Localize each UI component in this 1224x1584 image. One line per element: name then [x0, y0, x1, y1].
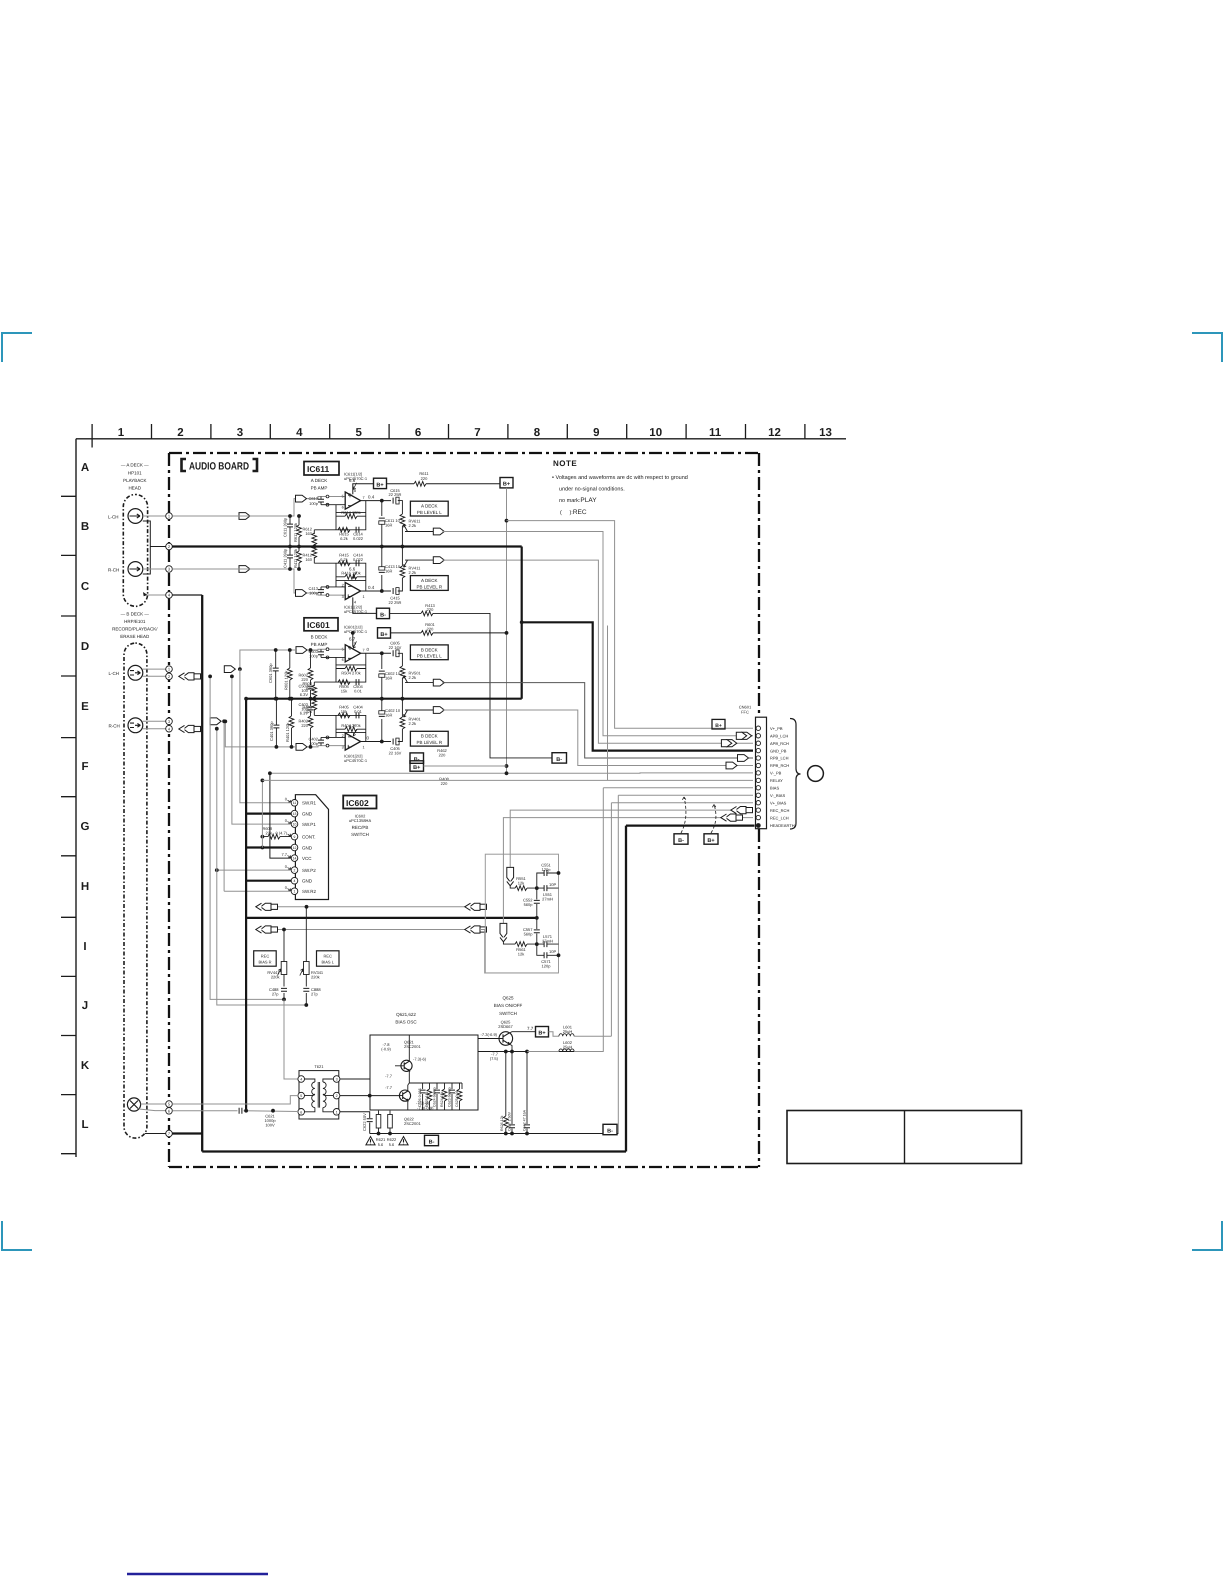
svg-text:C625 0.01: C625 0.01: [455, 1090, 459, 1107]
svg-text:E: E: [81, 701, 89, 713]
svg-text:0.4: 0.4: [368, 494, 375, 499]
svg-text:5: 5: [355, 427, 362, 439]
svg-text:1: 1: [294, 890, 296, 894]
border left: [168, 453, 170, 1167]
board pin 2: [166, 543, 173, 550]
wire into VCC: [270, 773, 291, 858]
svg-text:6: 6: [342, 658, 344, 662]
svg-text:1: 1: [363, 745, 365, 749]
op-amp U2b IC601 R: [345, 733, 360, 750]
chevron on A R-CH line: [239, 566, 250, 573]
head A ground arrow on shield: [143, 592, 148, 596]
svg-text:11: 11: [293, 801, 297, 805]
input chevron IC611 R: [296, 590, 307, 597]
border top: [169, 452, 759, 454]
board pin B4: [166, 725, 173, 732]
svg-text:0: 0: [285, 818, 288, 823]
svg-text:15k: 15k: [341, 688, 347, 693]
board pin B1: [166, 666, 173, 673]
column numbers: [118, 427, 832, 439]
svg-text:FFC: FFC: [741, 709, 749, 714]
pin net labels: [770, 726, 795, 828]
svg-text:1: 1: [363, 595, 365, 599]
svg-text:CONT.: CONT.: [302, 834, 316, 839]
B+ box V+ PB: [712, 719, 725, 729]
svg-text:7: 7: [363, 649, 365, 653]
capacitor C411 390p: [289, 547, 291, 570]
svg-text:2: 2: [177, 427, 183, 439]
B- box right: [603, 1124, 617, 1134]
svg-text:under no-signal conditions.: under no-signal conditions.: [559, 487, 625, 493]
svg-text:2.2k: 2.2k: [409, 570, 417, 575]
op-amp U1b IC611 R: [345, 582, 360, 599]
svg-text:R504 270k: R504 270k: [341, 670, 360, 675]
svg-text:0.01: 0.01: [354, 688, 363, 693]
wire into GND b (heavy): [246, 846, 291, 848]
chevron on B L-CH pb line: [224, 666, 235, 673]
svg-text:22 25R: 22 25R: [389, 600, 402, 605]
crop mark top-left: [1, 332, 32, 362]
board pin 1: [166, 513, 173, 520]
svg-text:D: D: [81, 641, 89, 653]
svg-text:G: G: [81, 821, 90, 833]
svg-text:2: 2: [342, 583, 344, 587]
inductor L601 25uH: [559, 1034, 574, 1037]
svg-text:560p: 560p: [524, 932, 534, 937]
svg-text:8: 8: [354, 489, 356, 493]
svg-text:R401 120k: R401 120k: [285, 723, 290, 742]
wire B R-CH loop to amp input: [225, 721, 345, 747]
head B R-CH head element: [128, 718, 143, 733]
svg-text:B+: B+: [715, 723, 722, 729]
svg-text:HEADEARTH: HEADEARTH: [770, 823, 795, 828]
svg-text:NOTE: NOTE: [553, 459, 577, 468]
svg-text:2SC2001: 2SC2001: [404, 1121, 421, 1126]
svg-text:uPC4570C-1: uPC4570C-1: [344, 476, 368, 481]
capacitor C603 100p: [320, 649, 322, 657]
feedback network box A-R: [314, 563, 366, 591]
B+ box (IC611): [374, 478, 387, 488]
T621 pins: [298, 1076, 305, 1083]
leader to V+ BIAS rail: [711, 805, 716, 834]
wire B L-CH rec vertical: [210, 676, 284, 999]
crop mark bottom-right: [1192, 1221, 1223, 1250]
svg-text:27p: 27p: [272, 991, 279, 996]
resistor R503 22k: [313, 682, 315, 699]
svg-text:10P: 10P: [549, 949, 556, 954]
svg-text:22k: 22k: [266, 831, 272, 836]
transformer T621 body: [299, 1071, 339, 1119]
capacitor C405 22 16V: [393, 739, 396, 745]
IC611 label box: [304, 462, 339, 476]
svg-text:1: 1: [118, 427, 125, 439]
IC602 pin GND b: [291, 844, 298, 851]
capacitor C551 120p loop: [537, 873, 559, 888]
svg-text:11: 11: [709, 427, 722, 439]
capacitor C571 120p loop: [537, 944, 559, 955]
svg-text:APB_RCH: APB_RCH: [770, 741, 789, 746]
svg-text:16R: 16R: [385, 523, 392, 528]
test point circles op-amp 2 inputs: [326, 586, 329, 597]
svg-text:R626 12k: R626 12k: [500, 1115, 504, 1131]
svg-text:25uH: 25uH: [563, 1044, 573, 1049]
svg-text:uPC4570C-1: uPC4570C-1: [344, 758, 368, 763]
fusible resistor R621 5.6: [378, 1111, 380, 1134]
capacitor C417 zobel (R): [381, 547, 383, 592]
svg-text:B-: B-: [607, 1128, 613, 1134]
arrow left end lower bus: [256, 926, 278, 933]
B- box (IC601 bottom): [410, 753, 424, 763]
svg-text:IC602: IC602: [346, 798, 369, 808]
input chevron IC601 R: [296, 744, 307, 751]
capacitor 10P lower: [537, 943, 559, 945]
svg-text:2.2k: 2.2k: [409, 675, 417, 680]
svg-text:0: 0: [285, 797, 288, 802]
svg-text:PB LEVEL R: PB LEVEL R: [416, 584, 442, 589]
svg-text:Q621,622: Q621,622: [396, 1012, 416, 1017]
capacitor C642 47 16A: [526, 1052, 528, 1134]
wire to R551: [510, 886, 537, 888]
svg-text:V+_PB: V+_PB: [770, 726, 783, 731]
svg-text:2: 2: [294, 869, 296, 873]
head A common bracket wire: [143, 521, 169, 574]
ground bus A deck (heavy): [172, 545, 521, 547]
rec arrow into B L-CH: [179, 673, 201, 680]
board pin 4: [166, 592, 173, 599]
capacitor C413 100p: [320, 587, 322, 595]
wire to level pot B-R: [398, 729, 403, 742]
head B erase element: [127, 1098, 140, 1111]
svg-text:10P: 10P: [549, 882, 556, 887]
svg-text:4: 4: [300, 1078, 302, 1082]
svg-text:B+: B+: [376, 482, 383, 488]
feedback network box A-L: [314, 501, 366, 530]
svg-text:2SC2001: 2SC2001: [404, 1044, 421, 1049]
svg-text:100p: 100p: [309, 654, 319, 659]
svg-text:220: 220: [301, 723, 308, 728]
test point circles op-amp 3 inputs: [326, 648, 329, 659]
B- reference box below connector: [674, 834, 688, 844]
svg-text:RECORD/PLAYBACK/: RECORD/PLAYBACK/: [112, 626, 158, 631]
wire op-amp 2 minus lead: [321, 580, 345, 587]
IC602 pin SW.R2: [291, 888, 298, 895]
B DECK PB LEVEL R box: [410, 731, 448, 746]
oscillator box: [370, 1035, 478, 1110]
resistor R415 + capacitor C414: [338, 561, 350, 566]
svg-text:L-CH: L-CH: [109, 671, 120, 676]
svg-text:2: 2: [342, 734, 344, 738]
svg-text:5: 5: [342, 647, 344, 651]
svg-text:V+_BIAS: V+_BIAS: [770, 800, 787, 805]
svg-text:9: 9: [294, 835, 296, 839]
svg-text:REC: REC: [261, 954, 270, 959]
warning triangle right: [399, 1137, 408, 1145]
svg-text:R-CH: R-CH: [108, 567, 119, 572]
component ladder in osc box: [423, 1083, 462, 1110]
capacitor C407 zobel (B-R): [381, 699, 383, 742]
svg-text:5.6: 5.6: [378, 1142, 384, 1147]
IC601 label box: [304, 618, 338, 631]
wire to level pot: [398, 501, 403, 514]
resistor R601 220 supply: [391, 632, 507, 634]
resistor R401 120k: [291, 699, 293, 747]
IC602 pin GND c: [291, 877, 298, 884]
IC602 body outline: [295, 795, 328, 900]
svg-text:(7.5): (7.5): [490, 1056, 499, 1061]
wire B+ feed bus down: [506, 488, 508, 773]
svg-text:B-: B-: [414, 757, 420, 763]
svg-text:25uH: 25uH: [563, 1029, 573, 1034]
capacitor C601 390p: [275, 650, 277, 699]
resistor R611 120k: [298, 516, 300, 547]
svg-text:120p: 120p: [542, 963, 552, 968]
border right upper: [758, 453, 760, 717]
svg-text:120p: 120p: [542, 867, 552, 872]
wire shield bottom to pin 7: [145, 1133, 166, 1135]
resistor R614 180k: [336, 515, 366, 517]
svg-text:2.2k: 2.2k: [409, 523, 417, 528]
head B L-CH head element: [128, 665, 143, 680]
B- box (near connector): [552, 753, 567, 763]
resistor R551 12k: [515, 886, 527, 891]
svg-text:B: B: [81, 521, 89, 533]
svg-text:-7.3(-6): -7.3(-6): [413, 1056, 427, 1061]
svg-text:6.7: 6.7: [349, 636, 356, 641]
A DECK PB LEVEL L box: [410, 501, 448, 516]
svg-text:7.7: 7.7: [281, 852, 287, 857]
wire op-amp 4 minus lead: [321, 733, 345, 738]
wire op-amp 2 V- pin to B- rail: [353, 597, 377, 613]
svg-text:220k: 220k: [311, 974, 320, 979]
svg-text:B+: B+: [413, 765, 420, 771]
chevron on B R-CH pb line: [210, 718, 221, 725]
down arrow lower: [500, 923, 507, 941]
transistor Q622: [399, 1085, 410, 1110]
svg-text:L-CH: L-CH: [108, 514, 119, 519]
wire op-amp 3 minus lead: [321, 657, 345, 665]
wire B R-CH rec vertical: [217, 729, 306, 1005]
svg-text:5: 5: [300, 1094, 302, 1098]
svg-text:12k: 12k: [518, 880, 524, 885]
ring terminal: [808, 766, 824, 782]
test point circles op-amp 4 inputs: [326, 736, 329, 747]
svg-text:C411 390p: C411 390p: [283, 548, 288, 568]
svg-text:R-CH: R-CH: [109, 724, 120, 729]
svg-text:3: 3: [342, 595, 344, 599]
series R602 220 / C502 100 6.3V: [310, 650, 312, 699]
wire APB RCH: [443, 560, 754, 743]
svg-text:5: 5: [342, 495, 344, 499]
svg-text:22k: 22k: [306, 709, 312, 714]
wire V+ PB: [507, 521, 754, 729]
svg-text:0: 0: [285, 864, 288, 869]
wire REC LCH from connector: [503, 818, 753, 923]
svg-text:R416 180k: R416 180k: [341, 571, 360, 576]
svg-text:27p: 27p: [311, 991, 318, 996]
chevron B PB level R out: [433, 707, 444, 714]
earth bottom run (heavy): [202, 1150, 626, 1152]
ground spur to filter (heavy): [246, 917, 537, 919]
IC602 pin VCC: [291, 855, 298, 862]
IC602 pin SW.R1: [291, 800, 298, 807]
svg-text:BIAS L: BIAS L: [321, 960, 334, 965]
capacitor C488 27p: [281, 988, 287, 991]
svg-text:H: H: [81, 881, 89, 893]
svg-text:SWITCH: SWITCH: [351, 832, 369, 837]
svg-text:14: 14: [293, 857, 297, 861]
wire pin4 to earth trunk: [172, 594, 202, 596]
svg-text:16R: 16R: [385, 569, 392, 574]
B+ box (IC601): [378, 628, 391, 638]
wire GND PB (heavy): [522, 547, 753, 751]
svg-text:IC611: IC611: [307, 464, 329, 474]
svg-text:B+: B+: [380, 632, 387, 638]
svg-text:13: 13: [293, 812, 297, 816]
REC BIAS L box: [317, 951, 340, 966]
svg-text:V-_BIAS: V-_BIAS: [770, 793, 785, 798]
crop mark bottom-left: [1, 1221, 32, 1250]
svg-text:GND: GND: [302, 811, 313, 816]
svg-text:0: 0: [367, 735, 370, 740]
input chevron IC601 L: [296, 647, 307, 654]
svg-text:2SD667: 2SD667: [498, 1024, 513, 1029]
svg-text:6.6: 6.6: [349, 478, 356, 483]
board pin 7: [166, 1130, 173, 1137]
svg-text:PB LEVEL L: PB LEVEL L: [417, 654, 442, 659]
resistor R403 22k: [313, 699, 315, 716]
svg-text:0.022: 0.022: [353, 557, 364, 562]
row letters: [81, 462, 90, 1131]
arrow APB RCH: [721, 740, 736, 747]
capacitor C622 50V: [367, 1119, 373, 1122]
B- rail with R413 220: [390, 613, 553, 758]
wire BIAS: [603, 788, 753, 1052]
arrow RPB RCH: [726, 762, 737, 769]
svg-text:C601 390p: C601 390p: [268, 663, 273, 683]
svg-text:SW.P1: SW.P1: [302, 822, 316, 827]
capacitor C402 100p: [320, 737, 322, 745]
earth trunk left (heavy): [201, 595, 203, 1152]
ground bus B deck (heavy): [246, 698, 522, 700]
svg-text:F: F: [81, 761, 88, 773]
svg-text:uPC1358HA: uPC1358HA: [349, 818, 372, 823]
svg-text:7: 7: [363, 496, 365, 500]
wire V- BIAS: [618, 795, 753, 1133]
svg-text:100p: 100p: [309, 590, 319, 595]
svg-text:APB_LCH: APB_LCH: [770, 734, 788, 739]
B+ reference box below connector: [704, 834, 718, 844]
svg-text:12: 12: [293, 846, 297, 850]
wire mute feed vertical: [607, 626, 609, 781]
connector body: [756, 717, 767, 829]
wire to level pot B-L: [398, 653, 403, 666]
wire B+ rail to bus: [424, 765, 507, 767]
wire REC RCH from connector: [510, 810, 753, 867]
wire pin5 head to T621-5: [172, 1096, 298, 1104]
wire to R561: [503, 942, 536, 944]
ruler baseline: [76, 438, 846, 440]
resistor R405 + capacitor C404: [338, 713, 350, 718]
border right lower: [758, 829, 760, 1167]
svg-text:-7.7: -7.7: [385, 1074, 393, 1079]
svg-text:GND_PB: GND_PB: [770, 748, 787, 753]
filter box outline: [485, 854, 558, 973]
svg-text:Q625: Q625: [502, 996, 514, 1001]
arrow right end lower bus: [465, 926, 487, 933]
Q621 collector to box top: [408, 1035, 410, 1052]
head A shield outline: [123, 495, 147, 607]
capacitor C611 390p: [289, 516, 291, 547]
capacitor C621 1000p 100V: [239, 1108, 242, 1114]
chevron A PB level L out: [433, 528, 444, 535]
arrow RPB LCH: [738, 755, 749, 762]
B- box (IC601 top): [377, 608, 390, 618]
pin HEADEARTH solder dot: [756, 823, 761, 828]
ground trunk B deck (heavy): [245, 699, 247, 1111]
svg-text:12k: 12k: [518, 951, 524, 956]
svg-text:— A DECK —: — A DECK —: [121, 463, 149, 468]
svg-text:SW.P2: SW.P2: [302, 868, 316, 873]
capacitor C888 27p: [303, 988, 309, 991]
svg-text:16R: 16R: [385, 676, 392, 681]
svg-text:A: A: [81, 462, 89, 474]
wire VCC / V- PB rail: [270, 772, 753, 774]
brace: [790, 719, 801, 830]
wire B+ to L601: [549, 1032, 559, 1037]
svg-text:C624 6800p: C624 6800p: [433, 1087, 437, 1107]
border bottom: [169, 1166, 759, 1168]
IC602 pin GND a: [291, 810, 298, 817]
svg-text:— B DECK —: — B DECK —: [121, 611, 150, 616]
svg-text:22 25R: 22 25R: [389, 492, 402, 497]
svg-text:R411 120k: R411 120k: [293, 549, 298, 568]
wire B R-CH pb to SW.R2: [223, 721, 225, 891]
svg-text:REC/PB: REC/PB: [352, 825, 369, 830]
svg-text:GND: GND: [302, 879, 313, 884]
warning triangle left: [366, 1137, 375, 1145]
svg-text:27mH: 27mH: [542, 896, 553, 901]
svg-text:C401 390p: C401 390p: [269, 721, 274, 741]
svg-text:L: L: [81, 1119, 88, 1131]
arrow right end upper bus: [465, 903, 487, 910]
svg-text:(-0.9): (-0.9): [381, 1047, 391, 1052]
capacitor C602 zobel: [381, 653, 383, 698]
wire T621-1 down to B- rail: [340, 1112, 370, 1134]
board pin 3: [166, 566, 173, 573]
table outline: [787, 1111, 1022, 1164]
wire shield to pin 4: [148, 594, 169, 596]
svg-text:RPB_LCH: RPB_LCH: [770, 756, 789, 761]
fusible resistor R622 5.6: [389, 1111, 391, 1134]
wire T621-3 to osc box: [340, 1078, 370, 1080]
head B shield outline: [124, 643, 147, 1138]
resistor R601 120k: [289, 650, 291, 699]
potentiometer RV401 2.2k: [401, 699, 403, 717]
svg-text:AUDIO BOARD: AUDIO BOARD: [189, 460, 249, 472]
wire pin7 to earth trunk (heavy): [172, 1132, 202, 1134]
svg-text:A DECK: A DECK: [311, 478, 328, 483]
resistor R561 12k: [515, 942, 527, 947]
svg-text:HEAD: HEAD: [129, 486, 142, 491]
capacitor C617 zobel: [381, 501, 383, 547]
wire head A L-CH to pin 1: [143, 515, 236, 517]
potentiometer RV611 2.2k: [401, 526, 403, 547]
svg-text:uPC4570C-1: uPC4570C-1: [344, 629, 368, 634]
svg-text:C642 47 16A: C642 47 16A: [522, 1109, 526, 1131]
wire head B L-CH to pins 1/2: [143, 669, 166, 676]
wire op-amp 2 output: [361, 590, 392, 592]
rec arrow into B R-CH: [179, 725, 201, 732]
